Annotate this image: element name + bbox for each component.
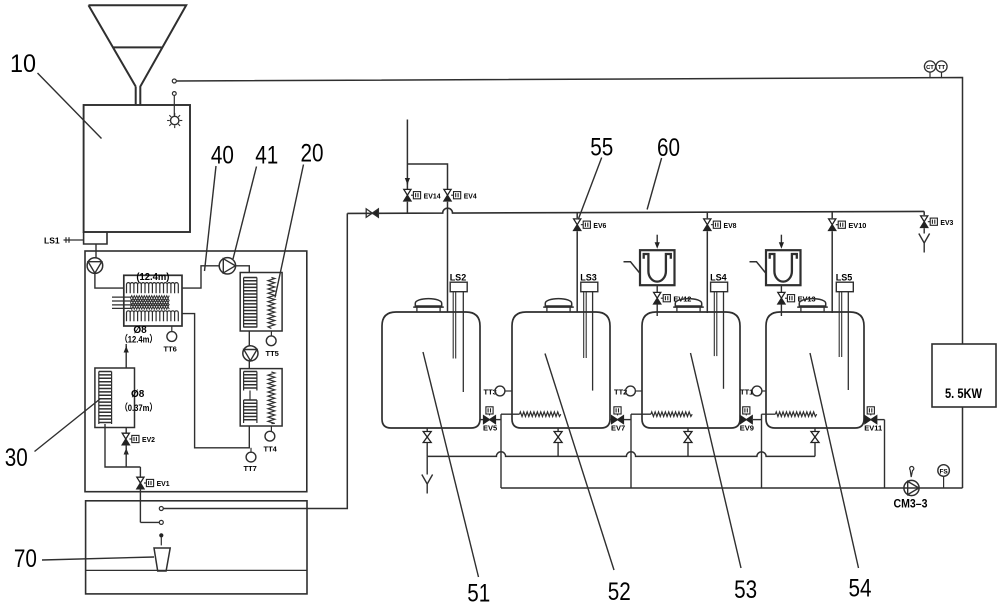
EV4 drop to tank 51 — [447, 202, 449, 312]
valve EV11 — [865, 416, 871, 424]
heat exchanger section box — [85, 251, 307, 492]
riser drop at 761.5 — [761, 414, 763, 488]
riser from 30 to exchanger with up arrow — [125, 344, 127, 368]
condenser 30 coil column — [99, 372, 112, 423]
svg-text:EV3: EV3 — [940, 218, 953, 227]
leader for label 60 — [647, 158, 662, 210]
drain from coil 30 bottom — [105, 424, 140, 467]
svg-text:TT7: TT7 — [244, 464, 257, 473]
svg-text:54: 54 — [849, 575, 872, 603]
agitator/nozzle symbol in tank 10 — [171, 116, 179, 124]
pump 41 — [219, 258, 235, 274]
waste drain line with hops — [427, 452, 815, 457]
svg-text:Ø8: Ø8 — [131, 389, 145, 400]
leader for label 20 — [275, 165, 304, 298]
svg-text:53: 53 — [734, 576, 757, 604]
valve EV2 — [125, 428, 127, 434]
leader for label 53 — [691, 353, 742, 568]
svg-text:LS4: LS4 — [710, 273, 727, 283]
heater box lower — [240, 369, 282, 426]
manual drain valve under tank 51 — [426, 428, 428, 432]
valve EV3 at manifold end — [923, 211, 925, 215]
manual drain valve under tank 52 — [557, 428, 559, 432]
leader for label 10 — [38, 73, 102, 139]
feed line tank10 sump to pump — [95, 244, 97, 258]
leader for label 55 — [578, 158, 602, 220]
svg-text:TT: TT — [938, 65, 946, 71]
svg-text:52: 52 — [608, 578, 631, 606]
transfer pipe tank53 to riser — [739, 419, 741, 421]
TT5 sensor — [270, 331, 272, 336]
wire pump41 to heater 20 — [236, 266, 250, 273]
transfer pipe tank54 to EV11 — [863, 419, 865, 421]
leader for label 51 — [423, 352, 479, 577]
exchanger middle crosshatch mesh — [131, 296, 170, 301]
leader for label 40 — [205, 166, 217, 271]
svg-text:TT6: TT6 — [164, 345, 177, 354]
transfer pipe tank51 to riser — [480, 419, 483, 421]
svg-text:EV4: EV4 — [464, 191, 478, 200]
four stub lines left of exchanger — [112, 296, 131, 298]
svg-text:40: 40 — [211, 141, 234, 169]
svg-text:LS3: LS3 — [580, 273, 597, 283]
svg-text:EV10: EV10 — [848, 221, 866, 230]
svg-text:EV9: EV9 — [740, 424, 754, 433]
svg-text:51: 51 — [467, 579, 490, 606]
weighing cup feeder for tank 53 with valve EV12 — [640, 250, 675, 285]
waste outlet Y drain — [426, 456, 428, 474]
tank 10 outlet sump — [84, 232, 107, 244]
tank 54 — [766, 312, 864, 428]
svg-text:EV6: EV6 — [593, 221, 606, 230]
TT4 sensor — [270, 426, 272, 431]
valve EV14 — [404, 189, 411, 195]
branch line to EV4 — [407, 164, 447, 189]
svg-text:CM3–3: CM3–3 — [894, 499, 928, 511]
svg-text:FS: FS — [939, 468, 948, 475]
leader for label 70 — [42, 557, 154, 560]
leader for label 30 — [35, 399, 101, 452]
lower heater zigzag element — [268, 372, 275, 424]
pump suction line — [501, 487, 963, 489]
return wire lower heater to exchanger — [182, 314, 249, 448]
valve EV9 — [740, 416, 746, 424]
manual drain valve under tank 54 — [814, 428, 816, 432]
heater 20 coil column — [244, 278, 257, 328]
drain funnel in tank 70 — [154, 548, 170, 571]
svg-text:EV7: EV7 — [611, 424, 625, 433]
EV14 outlet to manifold — [406, 202, 408, 214]
riser drop at 501 — [500, 414, 502, 488]
lower heater coil column upper part — [244, 372, 257, 389]
tank 10 (raw material tank) — [84, 105, 190, 232]
priming vent squiggle above pump — [910, 466, 914, 477]
heater element pipe into tank 54 — [762, 413, 776, 415]
valve EV4 — [444, 189, 451, 195]
mid pump between heaters — [243, 346, 258, 361]
heater box 20 upper — [240, 273, 282, 332]
svg-text:TT5: TT5 — [266, 349, 279, 358]
main exchanger box (12.4m) — [124, 275, 182, 326]
EV11 drop to pump suction — [884, 420, 886, 488]
svg-text:EV5: EV5 — [483, 424, 497, 433]
valve EV10 on tank54 drop — [831, 212, 833, 218]
wire exchanger outlet to pump 41 — [182, 266, 219, 288]
svg-text:(12.4m): (12.4m) — [136, 271, 169, 283]
exchanger top coil row — [127, 283, 179, 294]
steam feed drop line — [406, 120, 408, 190]
lower heater coil column lower part — [244, 400, 257, 420]
svg-text:LS2: LS2 — [450, 273, 467, 283]
vapour line from tank 10 to right side — [176, 78, 962, 489]
svg-text:LS5: LS5 — [836, 273, 853, 283]
svg-text:EV8: EV8 — [724, 221, 737, 230]
riser drop at 631 — [630, 414, 632, 488]
vapour line start circle — [172, 79, 176, 83]
tank 53 — [642, 312, 740, 428]
svg-text:20: 20 — [301, 140, 324, 168]
tank 51 — [382, 312, 480, 428]
svg-text:55: 55 — [590, 134, 613, 162]
leader for label 41 — [233, 167, 257, 260]
water seal tank 70 box — [86, 501, 307, 594]
heater 20 zigzag element — [268, 278, 275, 329]
svg-text:（12.4m）: （12.4m） — [120, 334, 157, 346]
condenser coil 30 box — [95, 368, 135, 428]
leader for label 54 — [810, 353, 859, 568]
valve EV6 on tank52 drop — [576, 213, 578, 219]
manual drain valve under tank 53 — [687, 428, 689, 432]
water level line in tank 70 — [86, 569, 307, 571]
return line from manifold into tank 70 — [163, 213, 347, 508]
wire heater20 to mid pump — [248, 331, 250, 346]
valve EV7 — [612, 416, 618, 424]
wire mid pump to lower heater — [248, 361, 250, 369]
svg-text:（0.37m）: （0.37m） — [120, 402, 157, 414]
svg-text:LS1: LS1 — [44, 236, 60, 246]
pump 40 (circulation pump) — [87, 258, 103, 274]
valve EV5 — [484, 416, 490, 424]
weighing cup feeder for tank 54 with valve EV13 — [766, 250, 801, 285]
svg-text:5. 5KW: 5. 5KW — [945, 386, 982, 401]
TT7 sensor — [250, 448, 252, 452]
valve EV8 on tank53 drop — [706, 212, 708, 218]
exchanger bottom coil row — [127, 311, 179, 322]
svg-text:60: 60 — [657, 134, 680, 162]
tank 10 vent stub circle — [172, 92, 176, 96]
flow switch FS — [938, 465, 950, 477]
svg-text:41: 41 — [255, 141, 278, 169]
svg-text:TT4: TT4 — [264, 445, 278, 454]
drain drip circle on return line — [159, 507, 163, 511]
svg-text:EV2: EV2 — [142, 435, 155, 444]
svg-text:10: 10 — [10, 50, 36, 78]
heater element pipe into tank 53 — [631, 413, 651, 415]
tank 52 — [512, 312, 610, 428]
svg-text:70: 70 — [14, 545, 37, 573]
sensor CT on vapour line — [924, 61, 935, 72]
lower heater coil step connector — [249, 391, 251, 401]
TT6 sensor — [171, 326, 173, 332]
valve EV1 — [139, 467, 141, 477]
svg-text:EV1: EV1 — [157, 479, 170, 488]
svg-text:EV14: EV14 — [424, 191, 442, 200]
EV1 drip stub with circle — [140, 521, 159, 523]
hopper funnel above tank 10 — [89, 5, 187, 105]
svg-text:30: 30 — [5, 444, 28, 472]
transfer pipe tank52 to riser — [610, 419, 611, 421]
sensor TT on vapour line — [936, 61, 947, 72]
electric heater 5.5KW box — [932, 344, 996, 407]
svg-text:TT1: TT1 — [740, 388, 753, 397]
manifold header line with hop over EV4 drop — [347, 208, 924, 213]
leader for label 52 — [545, 354, 614, 571]
wire pump40 to exchanger inlet — [95, 273, 124, 288]
vent drain Y below EV3 — [919, 234, 924, 244]
check valve on manifold left end — [366, 209, 372, 217]
drip dot above funnel 70 — [159, 533, 163, 537]
heater element pipe into tank 52 — [501, 413, 520, 415]
svg-text:CT: CT — [926, 65, 934, 71]
pump CM3-3 — [904, 480, 919, 495]
svg-text:EV11: EV11 — [864, 424, 882, 433]
